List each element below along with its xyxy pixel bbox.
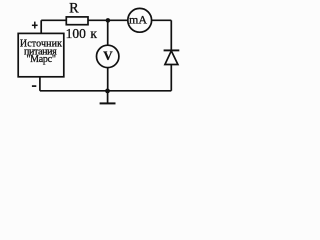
svg-text:mA: mA xyxy=(129,13,147,27)
voltmeter V circle xyxy=(97,45,119,67)
ground stub wire xyxy=(107,91,109,103)
resistor R body xyxy=(66,17,88,25)
wire mA meter to right corner xyxy=(152,19,172,21)
diode cathode bar xyxy=(164,49,180,51)
wire box bottom to bottom rail xyxy=(39,77,41,91)
node junction dot bottom xyxy=(105,89,110,94)
voltmeter branch wire lower xyxy=(107,68,109,91)
plus sign horizontal stroke xyxy=(32,24,38,26)
svg-text:V: V xyxy=(103,48,113,63)
wire right side down to diode xyxy=(170,20,172,50)
circuit schematic: power supply, resistor R 100k, mA-meter, V-meter, diode xyxy=(0,0,187,109)
power supply box xyxy=(18,33,64,76)
svg-text:100 к: 100 к xyxy=(66,26,98,41)
ammeter mA circle xyxy=(128,8,152,32)
plus sign vertical stroke xyxy=(34,22,36,29)
voltmeter branch wire upper xyxy=(107,20,109,45)
wire diode to bottom rail xyxy=(170,64,172,91)
node junction dot top xyxy=(106,18,111,23)
minus sign xyxy=(32,85,36,87)
diode triangle xyxy=(165,51,178,65)
wire resistor to mA meter xyxy=(88,19,127,21)
wire top rail to resistor xyxy=(41,19,66,21)
svg-text:R: R xyxy=(69,1,79,17)
bottom rail wire xyxy=(40,90,171,92)
svg-text:"Марс": "Марс" xyxy=(26,54,56,65)
wire box top to top rail xyxy=(40,20,42,33)
ground bar xyxy=(100,102,116,104)
